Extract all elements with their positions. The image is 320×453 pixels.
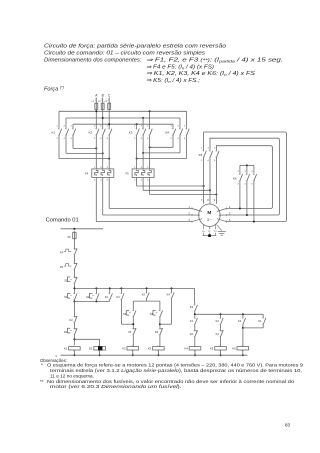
svg-text:K1: K1 — [105, 295, 109, 299]
svg-text:K2: K2 — [89, 131, 93, 135]
svg-text:Dimensionamento dos componente: Dimensionamento dos componentes: — [44, 57, 142, 63]
svg-text:K2: K2 — [122, 346, 126, 350]
svg-text:K4: K4 — [167, 292, 171, 296]
svg-text:Circuito de comando: 01 – cir: Circuito de comando: 01 – circuito com r… — [44, 51, 205, 57]
svg-text:S0: S0 — [64, 279, 68, 283]
svg-text:D1: D1 — [190, 332, 194, 336]
svg-text:**: ** — [40, 379, 44, 384]
svg-text:K1: K1 — [64, 346, 68, 350]
svg-text:⇒ K1, K2, K3, K4 e K6: (In / 4: ⇒ K1, K2, K3, K4 e K6: (In / 4) x FS — [146, 71, 255, 77]
svg-text:M: M — [207, 210, 211, 216]
svg-text:D1: D1 — [89, 346, 93, 350]
svg-text:B: B — [102, 93, 104, 97]
svg-text:K4: K4 — [238, 319, 242, 323]
svg-text:K1: K1 — [190, 319, 194, 323]
svg-text:K2: K2 — [155, 330, 159, 334]
svg-text:K5: K5 — [210, 346, 214, 350]
svg-text:⇒ K5: (In / 4) x FS.;: ⇒ K5: (In / 4) x FS.; — [146, 78, 200, 84]
svg-text:K4: K4 — [165, 131, 169, 135]
svg-text:S2: S2 — [86, 295, 90, 299]
svg-text:K4: K4 — [216, 332, 220, 336]
svg-text:11 e 12 no esquema.: 11 e 12 no esquema. — [50, 373, 94, 378]
svg-text:K2: K2 — [216, 319, 220, 323]
svg-text:S3: S3 — [123, 312, 127, 316]
svg-text:⇒ F4 e F5: (In / 4) (x FS): ⇒ F4 e F5: (In / 4) (x FS) — [146, 64, 214, 70]
svg-text:F4: F4 — [85, 172, 89, 176]
svg-text:terminais estrela (ver 3.1.2: terminais estrela (ver 3.1.2 Ligação sér… — [50, 368, 302, 373]
svg-text:83: 83 — [285, 423, 291, 428]
svg-text:Circuito de força: partida sé: Circuito de força: partida série-paralel… — [44, 44, 226, 50]
svg-text:3 ~: 3 ~ — [207, 218, 212, 222]
svg-text:K1: K1 — [52, 131, 56, 135]
svg-text:No dimensionamento dos fusívei: No dimensionamento dos fusíveis, o valor… — [47, 379, 295, 384]
svg-text:K3: K3 — [190, 305, 194, 309]
svg-text:K4: K4 — [185, 346, 189, 350]
svg-text:K6: K6 — [232, 346, 236, 350]
svg-text:⇒ F1, F2, e F3 (**): (Ipartida: ⇒ F1, F2, e F3 (**): (Ipartida / 4) x 15… — [146, 57, 283, 63]
svg-text:S1: S1 — [64, 295, 68, 299]
svg-text:K3: K3 — [148, 346, 152, 350]
svg-text:K3: K3 — [129, 131, 133, 135]
svg-text:K1: K1 — [258, 319, 262, 323]
svg-text:F5: F5 — [125, 172, 129, 176]
svg-text:K5: K5 — [199, 153, 203, 157]
svg-text:*: * — [41, 363, 43, 368]
svg-text:K2: K2 — [70, 318, 74, 322]
svg-text:K1: K1 — [128, 330, 132, 334]
svg-text:K2: K2 — [117, 295, 121, 299]
svg-text:K3: K3 — [142, 292, 146, 296]
svg-text:K6: K6 — [233, 176, 237, 180]
svg-text:S4: S4 — [150, 312, 154, 316]
svg-text:motor (ver 6.20.3 Dimensiona: motor (ver 6.20.3 Dimensionando um fusív… — [50, 384, 182, 389]
svg-text:D1: D1 — [64, 330, 68, 334]
svg-text:Comando 01: Comando 01 — [46, 218, 79, 224]
svg-text:O esquema de força refere-se a: O esquema de força refere-se a motores 1… — [47, 363, 304, 368]
